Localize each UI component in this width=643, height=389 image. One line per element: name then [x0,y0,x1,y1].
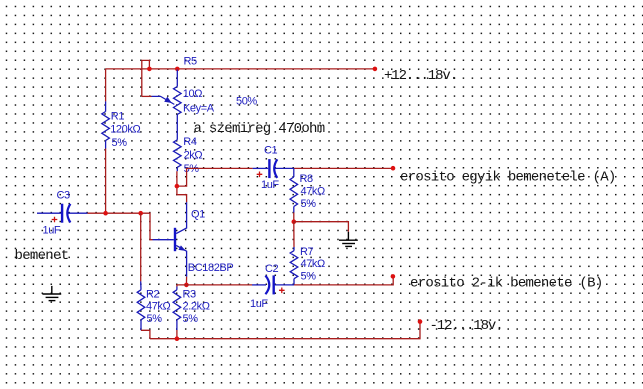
svg-text:47kΩ: 47kΩ [146,301,171,313]
junction: R4 bottom node [175,184,180,189]
svg-text:2.2kΩ: 2.2kΩ [183,301,210,313]
wire: R4 bottom to node [176,171,178,186]
wire: junction to ground branch [294,222,349,232]
junction: R2 branch on C3 wire [138,211,143,216]
wire: R3 bottom to rail [176,330,178,339]
svg-text:5%: 5% [112,137,128,149]
svg-text:R4: R4 [183,136,197,148]
svg-text:Key=A: Key=A [183,102,215,114]
svg-text:1uF: 1uF [261,179,279,191]
resistor R8 47k 5% [290,168,325,212]
junction: R1 bottom on C3 wire [103,211,108,216]
wire: R5 wiper loop to top rail [142,60,150,96]
svg-text:R1: R1 [111,110,125,122]
potentiometer R5 10 Ohm Key=A [152,56,258,115]
wire: C1 to A terminal [294,167,393,169]
junction: R2/R3 on bottom rail [175,336,180,341]
svg-text:C1: C1 [264,145,278,157]
resistor R2 47k 5% [137,281,170,330]
svg-text:bemenet: bemenet [15,248,69,264]
wire: node to C1 (A-line feed) [177,168,253,186]
svg-text:BC182BP: BC182BP [188,262,234,274]
wire: C3 output node run (C3 to base corner) [88,213,153,240]
junction: wiper on top rail [147,67,152,72]
svg-text:47kΩ: 47kΩ [301,258,326,270]
svg-text:erosito egyik bemenetele (A): erosito egyik bemenetele (A) [400,170,616,186]
wire: +12V top rail [106,68,375,70]
svg-text:1uF: 1uF [43,225,61,237]
wire: node down to Q1 collector [177,186,187,202]
svg-text:R2: R2 [146,289,160,301]
capacitor C1 1uF [253,145,294,192]
wire: left rail top (rail to R1) [105,69,107,102]
svg-text:R7: R7 [300,246,314,258]
wire: junction down to R7 [293,222,295,247]
wire: branch down to R2 [140,213,142,281]
svg-text:-12...18v.: -12...18v. [430,318,503,334]
svg-text:erosito 2-ik bemenete (B): erosito 2-ik bemenete (B) [410,275,603,291]
ground: right (between R8 and R7) [339,232,358,247]
svg-text:47kΩ: 47kΩ [301,185,326,197]
svg-text:10Ω: 10Ω [183,88,202,100]
terminal: -12...18v endpoint [418,319,423,324]
capacitor C3 1uF (input) [37,189,88,236]
terminal: erosito egyik bemenetele (A) endpoint [391,166,396,171]
svg-text:5%: 5% [301,198,317,210]
junction: R5 top on top rail [175,67,180,72]
svg-text:R8: R8 [300,173,314,185]
wire: C2/R7 to B terminal [294,278,393,285]
svg-text:C3: C3 [57,189,71,201]
terminal: +12...18v endpoint [373,67,378,72]
resistor R1 120k 5% [102,101,141,149]
wire: node right to C2 [186,284,252,286]
terminal: erosito 2-ik bemenete (B) endpoint [391,274,396,279]
resistor R3 2.2k 5% [173,287,210,331]
wire: -12V bottom rail [150,323,420,339]
wire: R2 bottom jog to bottom rail [141,330,150,338]
svg-text:+12...18v.: +12...18v. [384,68,457,84]
wire: R8 bottom to junction [293,213,295,222]
wire: emitter to node [185,277,187,285]
resistor R7 47k 5% [290,246,325,285]
svg-text:R5: R5 [184,56,198,68]
capacitor C2 1uF [250,263,294,310]
junction: R8/R7/ground node [292,219,297,224]
wire: node left to R3 top [177,285,187,287]
svg-text:C2: C2 [265,263,279,275]
wire: R1 bottom to C3 output node [105,149,107,214]
svg-text:R3: R3 [183,289,197,301]
transistor Q1 BC182BP [153,202,234,276]
svg-text:a szemireg 470ohm: a szemireg 470ohm [194,121,325,137]
wire: wiper stub [142,95,152,97]
ground: input reference (below bemenet) [42,286,61,301]
svg-text:5%: 5% [147,313,163,325]
svg-text:50%: 50% [236,95,257,107]
svg-text:Q1: Q1 [191,209,205,221]
svg-text:1uF: 1uF [250,298,268,310]
svg-text:5%: 5% [301,270,317,282]
resistor R4 2k 5% [174,115,203,175]
svg-text:5%: 5% [183,313,199,325]
svg-text:120kΩ: 120kΩ [110,124,140,136]
junction: emitter/R3/C2 node [184,283,189,288]
svg-text:2kΩ: 2kΩ [184,150,203,162]
